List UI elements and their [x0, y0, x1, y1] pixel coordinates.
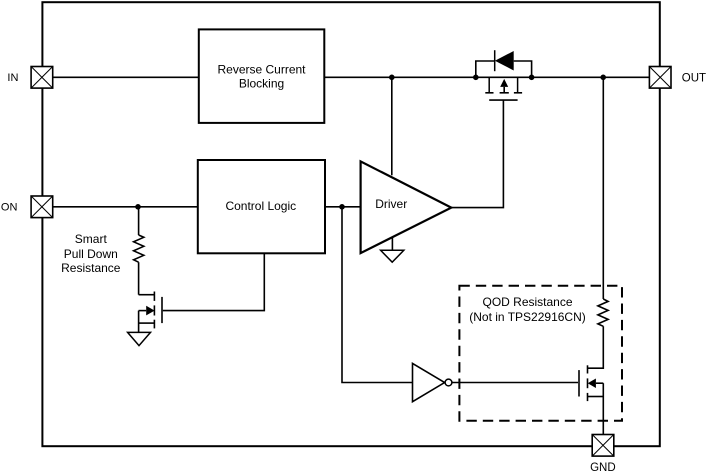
junction: smart pull down tap: [135, 204, 141, 210]
svg-text:Blocking: Blocking: [239, 77, 284, 91]
pass transistor Q1 (PMOS): [485, 77, 522, 100]
junction: pass FET drain node: [473, 75, 479, 81]
wire: R1 to Q2 drain: [138, 262, 140, 295]
wire: Q3 source to GND: [602, 383, 604, 434]
label: QOD Resistance: [469, 295, 586, 324]
junction: driver supply tap: [389, 75, 395, 81]
pin IN: [31, 67, 53, 89]
svg-text:QOD Resistance: QOD Resistance: [482, 295, 572, 309]
wire: inverter input from control node: [342, 207, 413, 383]
wire: inverter output to Q3 gate: [451, 382, 578, 384]
ground: smart pull down: [128, 332, 151, 345]
transistor Q2 (smart pull down NMOS): [139, 292, 162, 333]
junction: inverter tap: [339, 204, 345, 210]
wire: Control Logic to Driver: [325, 206, 361, 208]
svg-text:(Not in TPS22916CN): (Not in TPS22916CN): [469, 310, 586, 324]
wire: driver supply: [391, 77, 393, 175]
wire: top rail RCB to OUT: [324, 76, 649, 78]
svg-text:Control Logic: Control Logic: [225, 199, 296, 213]
junction: pass FET source node: [529, 75, 535, 81]
ground: driver: [381, 237, 404, 262]
wire: Q1 gate to driver output: [451, 100, 503, 208]
pin GND: [592, 435, 614, 457]
pin ON: [31, 196, 53, 218]
svg-text:OUT: OUT: [682, 73, 706, 85]
junction: QOD tap node: [600, 75, 606, 81]
wire: ON to Control Logic: [53, 206, 198, 208]
wire: tap to R1: [138, 207, 140, 235]
block: Reverse Current Blocking: [199, 29, 324, 123]
inverter U2: [413, 363, 452, 401]
svg-text:Pull Down: Pull Down: [64, 247, 118, 261]
transistor Q3 (QOD NMOS): [579, 365, 603, 401]
svg-text:ON: ON: [1, 202, 18, 214]
op-amp buffer: Driver: [361, 161, 452, 253]
svg-text:Reverse Current: Reverse Current: [217, 62, 306, 76]
wire: QOD tap to R2: [602, 77, 604, 299]
svg-text:Smart: Smart: [75, 232, 108, 246]
resistor R1 (smart pull down): [134, 235, 144, 262]
svg-text:Resistance: Resistance: [61, 261, 121, 275]
block: Control Logic: [198, 160, 325, 253]
body diode D1: [476, 50, 532, 77]
wire: R2 to Q3 drain: [588, 326, 604, 368]
svg-text:Driver: Driver: [375, 197, 407, 211]
pin OUT: [649, 67, 671, 89]
svg-text:IN: IN: [7, 72, 18, 84]
svg-text:GND: GND: [590, 462, 616, 474]
wire: IN to Reverse Current Blocking: [53, 76, 199, 78]
QOD dashed box: [459, 286, 622, 421]
resistor R2 (QOD resistance): [598, 299, 608, 326]
label: Smart Pull Down Resistance: [61, 232, 121, 275]
wire: Q2 gate to Control Logic: [163, 253, 264, 310]
